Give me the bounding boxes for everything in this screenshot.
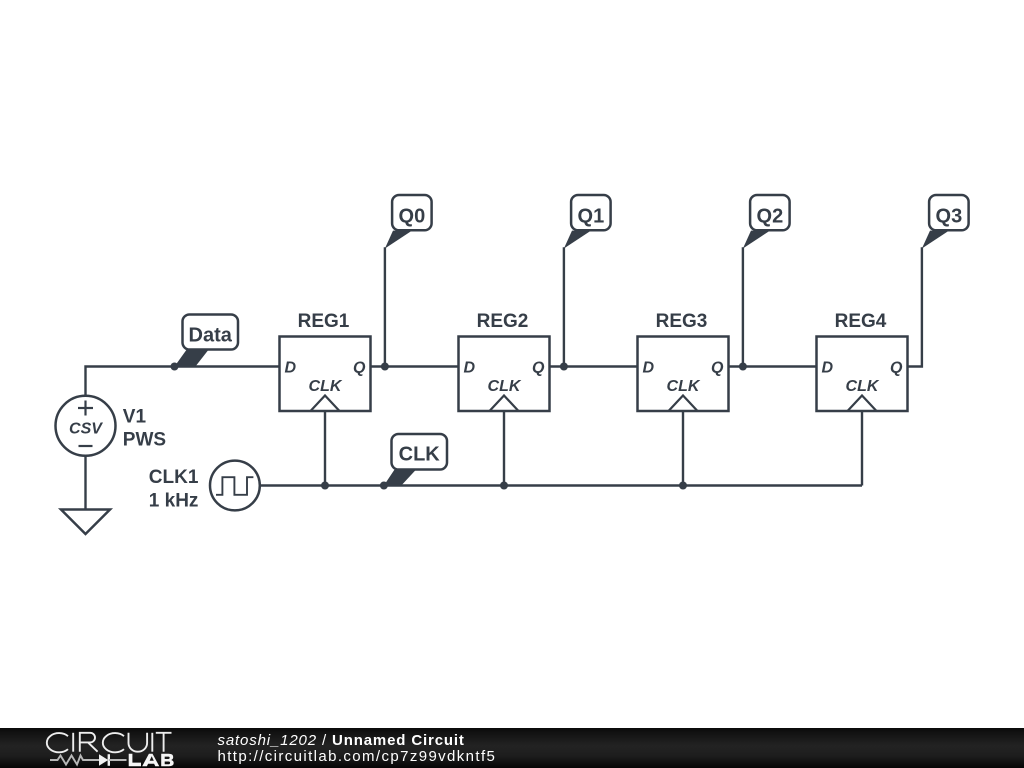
wire: Q1 vertical — [563, 247, 565, 366]
ground — [61, 510, 110, 535]
junction dot REG1 CLK — [321, 482, 329, 490]
svg-text:1 kHz: 1 kHz — [149, 490, 199, 511]
logo diode — [99, 754, 127, 766]
wire: REG1 CLK stub — [324, 411, 326, 486]
logo letter I — [151, 733, 153, 752]
footer bar — [0, 728, 1024, 768]
svg-text:D: D — [643, 360, 655, 377]
logo text LAB — [129, 754, 174, 766]
flip-flop REG3 — [638, 337, 729, 412]
label V1 PWS — [123, 407, 166, 451]
logo resistor zigzag — [50, 756, 99, 765]
logo letter T — [156, 733, 172, 752]
wire: REG3 Q to REG4 D — [729, 365, 817, 367]
svg-text:CLK1: CLK1 — [149, 467, 199, 488]
svg-text:Q: Q — [890, 360, 903, 377]
node label Q0 — [385, 195, 432, 249]
logo letter R — [80, 733, 98, 752]
svg-text:D: D — [285, 360, 297, 377]
svg-text:REG1: REG1 — [298, 311, 350, 332]
svg-text:D: D — [822, 360, 834, 377]
node label CLK — [384, 434, 447, 486]
svg-text:CLK: CLK — [846, 378, 880, 395]
wire: REG3 CLK stub — [682, 411, 684, 486]
svg-text:REG2: REG2 — [477, 311, 529, 332]
svg-text:Q: Q — [532, 360, 545, 377]
svg-text:PWS: PWS — [123, 429, 166, 450]
logo letter I — [72, 733, 74, 752]
wire: REG2 CLK stub — [503, 411, 505, 486]
junction dot at Q0 — [381, 363, 389, 371]
svg-text:CLK: CLK — [309, 378, 343, 395]
wire: clock bus — [260, 484, 862, 486]
svg-text:Q: Q — [353, 360, 366, 377]
wire: REG4 CLK stub — [861, 411, 863, 486]
svg-text:V1: V1 — [123, 407, 147, 428]
svg-text:Q1: Q1 — [578, 206, 605, 228]
svg-text:REG3: REG3 — [656, 311, 708, 332]
wire: Data net from V1 top to REG1 D pin — [86, 367, 280, 397]
wire: REG4 Q up to Q3 label — [908, 247, 922, 366]
junction dot REG2 CLK — [500, 482, 508, 490]
junction dot at Q1 — [560, 363, 568, 371]
junction dot at CLK label anchor — [380, 482, 388, 490]
flip-flop REG1 — [280, 337, 371, 412]
logo letter C — [103, 733, 124, 752]
svg-text:CLK: CLK — [488, 378, 522, 395]
wire: Q0 vertical — [384, 247, 386, 366]
svg-text:Q2: Q2 — [757, 206, 784, 228]
voltage source V1 — [56, 396, 116, 456]
svg-text:CLK: CLK — [399, 443, 441, 465]
junction dot REG3 CLK — [679, 482, 687, 490]
node label Q1 — [564, 195, 611, 249]
clock source CLK1 — [210, 461, 260, 511]
svg-text:REG4: REG4 — [835, 311, 887, 332]
node label Q2 — [743, 195, 790, 249]
junction dot at Data label anchor — [171, 363, 179, 371]
CircuitLab logo — [0, 728, 190, 768]
wire: V1 bottom to ground — [84, 456, 86, 510]
svg-text:CLK: CLK — [667, 378, 701, 395]
svg-text:D: D — [464, 360, 476, 377]
wire: Q2 vertical — [742, 247, 744, 366]
node label Data — [175, 315, 239, 367]
wire: REG2 Q to REG3 D — [550, 365, 638, 367]
wire: REG1 Q to REG2 D — [371, 365, 459, 367]
junction dot at Q2 — [739, 363, 747, 371]
svg-text:Q: Q — [711, 360, 724, 377]
svg-text:Q3: Q3 — [936, 206, 963, 228]
label CLK1 1 kHz — [149, 467, 199, 512]
node label Q3 — [922, 195, 969, 249]
flip-flop REG4 — [817, 337, 908, 412]
logo letter U — [129, 733, 148, 752]
flip-flop REG2 — [459, 337, 550, 412]
footer title text — [218, 733, 497, 766]
svg-text:Data: Data — [189, 325, 233, 347]
svg-text:CSV: CSV — [69, 420, 103, 437]
logo letter C — [47, 733, 68, 752]
svg-text:Q0: Q0 — [399, 206, 426, 228]
